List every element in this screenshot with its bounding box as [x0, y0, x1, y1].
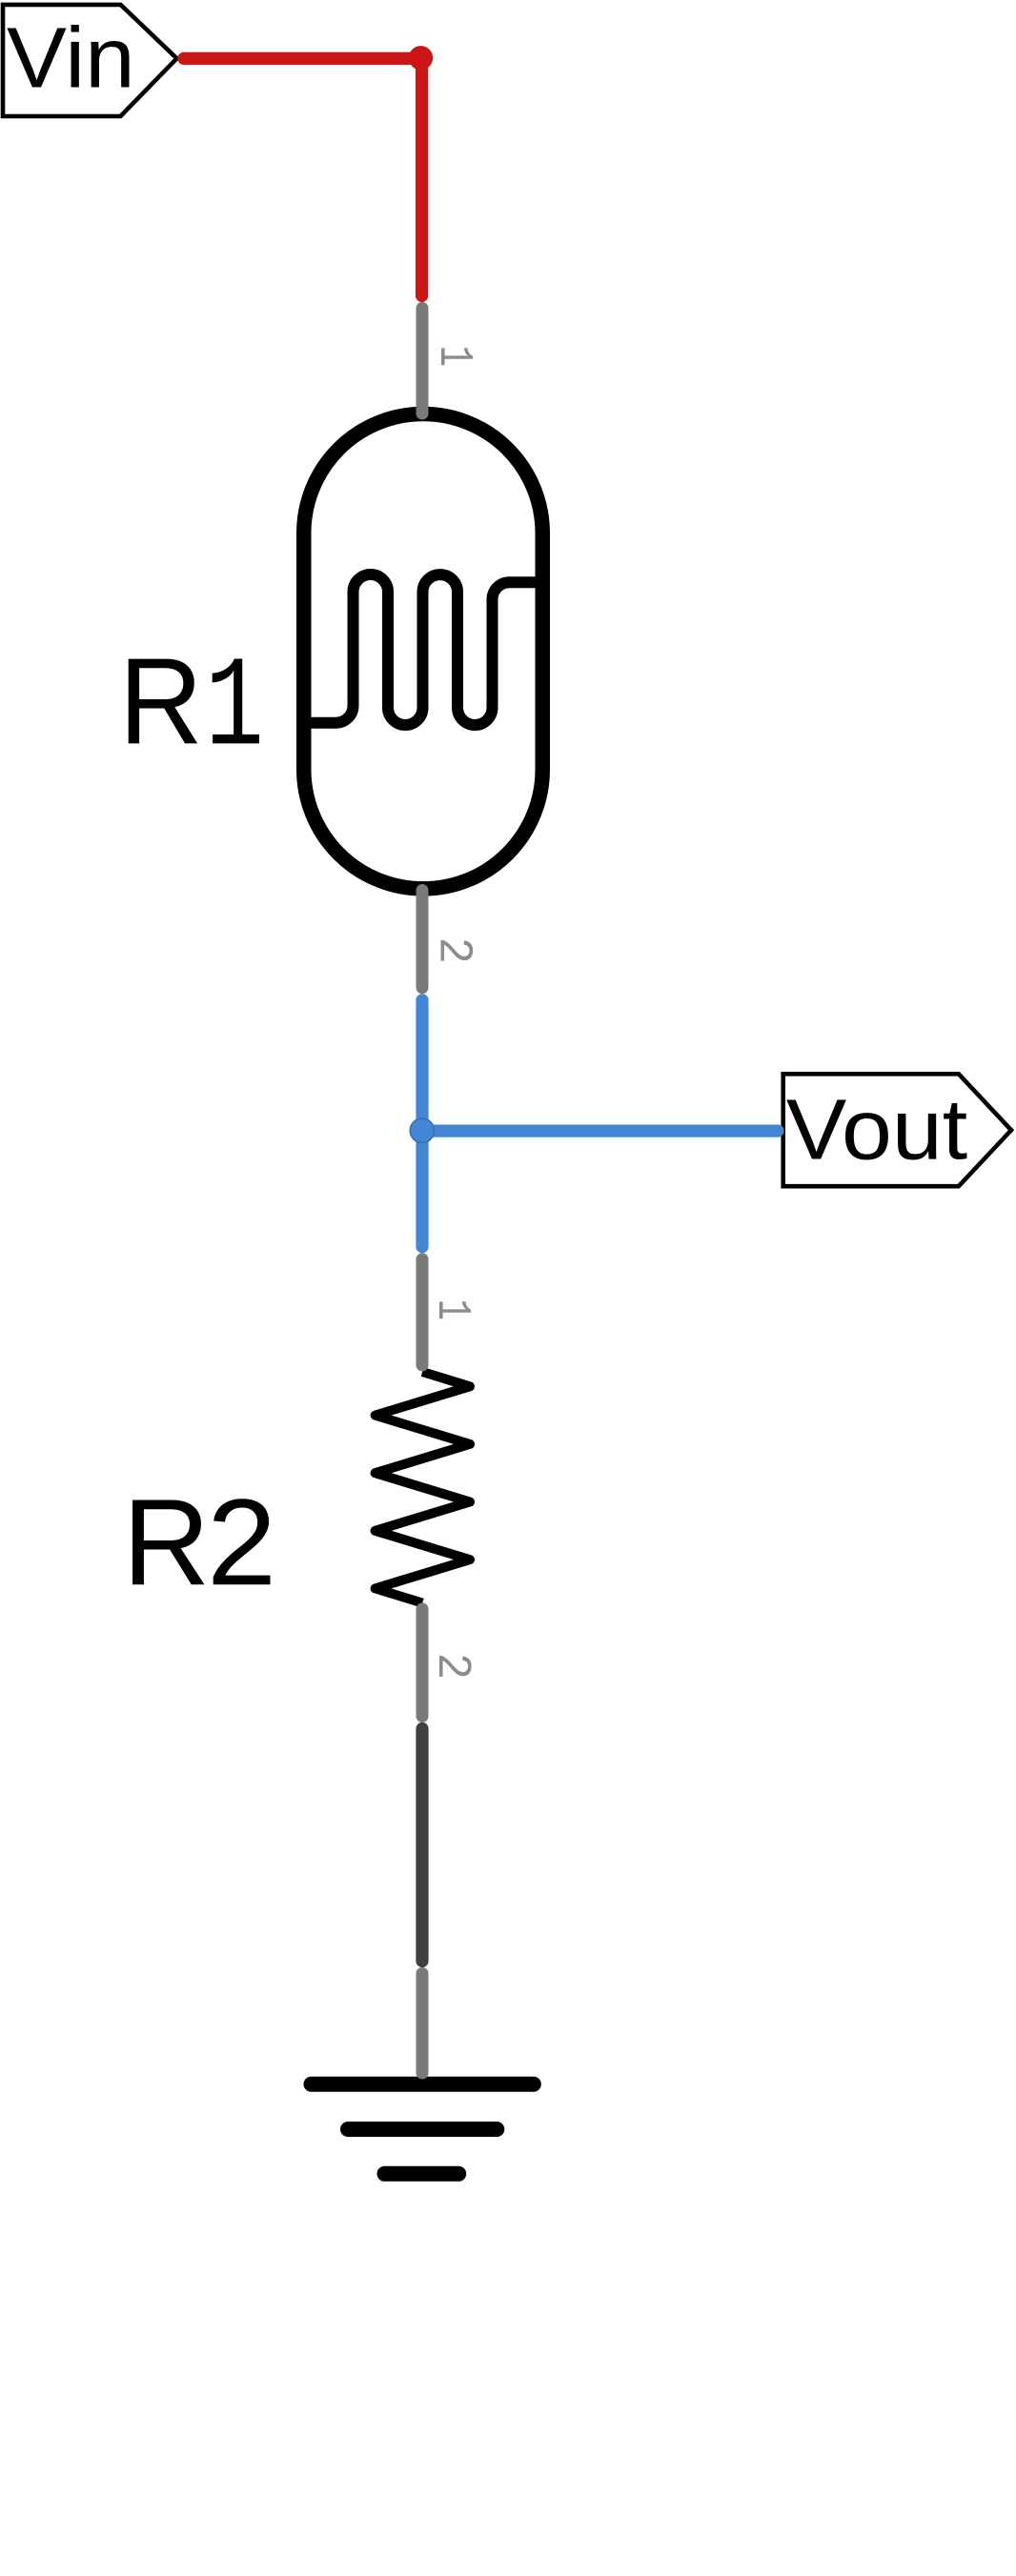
- wire Vin net: vertical red segment from junction down to R1 pin 1: [416, 58, 428, 295]
- svg-text:Vout: Vout: [786, 1081, 968, 1177]
- pin 2 of R2 (bottom): [417, 1609, 429, 1717]
- net flag Vout: [783, 1074, 1011, 1186]
- junction dot on Vout net (blue): [410, 1118, 434, 1142]
- svg-text:R: R: [123, 1474, 211, 1611]
- wire Vout net: vertical blue segment from R1 pin 2 to junction: [416, 1000, 428, 1131]
- component label R1: [119, 632, 264, 783]
- net flag Vin: [3, 5, 177, 116]
- svg-text:Vin: Vin: [7, 10, 135, 107]
- wire Vout net: horizontal blue segment from junction to Vout flag: [422, 1124, 778, 1137]
- resistor R2 zigzag element: [376, 1372, 470, 1603]
- junction dot on Vin net (red): [409, 46, 433, 70]
- wire Vin net: horizontal red segment from Vin flag to junction: [184, 52, 421, 65]
- ground bar 3 (bottom, narrowest): [385, 2166, 459, 2182]
- svg-text:R: R: [119, 632, 203, 770]
- ground symbol: [312, 2084, 534, 2174]
- svg-text:2: 2: [426, 937, 480, 965]
- ground bar 2 (middle): [348, 2122, 497, 2137]
- pin 2 of R1 (bottom): [417, 891, 429, 988]
- ground bar 1 (top, widest): [312, 2077, 534, 2092]
- photoresistor R1 internal meander track: [304, 574, 543, 725]
- pin 1 of R2 (top): [417, 1259, 429, 1365]
- wire ground net: dark gray segment from R2 pin 2 to ground pin: [416, 1729, 428, 1962]
- photoresistor R1 body (stadium outline): [304, 414, 543, 889]
- pin of ground symbol: [417, 1974, 429, 2074]
- component label R2: [123, 1473, 276, 1611]
- wire Vout net: vertical blue segment from junction to R2 pin 1: [416, 1131, 428, 1247]
- svg-text:2: 2: [425, 1653, 479, 1680]
- svg-text:1: 1: [426, 346, 480, 368]
- svg-text:1: 1: [424, 1299, 478, 1321]
- svg-text:2: 2: [207, 1473, 276, 1611]
- pin 1 of R1 (top): [417, 309, 429, 414]
- svg-text:1: 1: [205, 637, 264, 783]
